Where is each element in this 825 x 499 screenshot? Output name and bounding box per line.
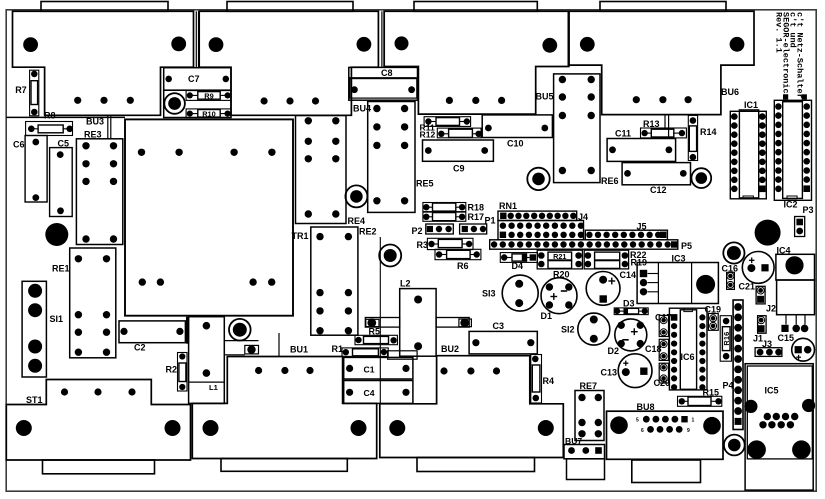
TR1 primary pads	[138, 149, 276, 156]
BU4 mounting pad left	[209, 37, 224, 52]
svg-text:1: 1	[692, 418, 695, 424]
connector BU7	[564, 445, 605, 480]
capacitor C19	[708, 314, 718, 331]
svg-text:R5: R5	[369, 326, 381, 336]
resistors R21 R20 group	[537, 250, 582, 269]
capacitor C15 pads	[781, 325, 808, 333]
mounting ring near L1	[229, 319, 251, 341]
BU1 tab	[221, 459, 347, 472]
inductor L2	[365, 289, 471, 357]
BU1 mounting pad left	[203, 420, 219, 436]
connector IC5 block	[744, 364, 815, 490]
svg-text:J2: J2	[766, 303, 776, 313]
svg-text:C6: C6	[13, 140, 25, 150]
voltage regulator IC3	[637, 263, 718, 304]
BU5 pin pads	[446, 97, 505, 104]
fuse SI3	[502, 275, 538, 311]
transformer TR1	[125, 119, 293, 315]
BU4 pin pads	[261, 97, 320, 104]
capacitor C12	[622, 163, 690, 185]
jumper J3	[755, 348, 782, 357]
svg-text:RE7: RE7	[580, 381, 598, 391]
capacitor C13	[618, 354, 652, 388]
capacitor C10	[482, 115, 552, 138]
connector BU4 tab	[227, 2, 353, 12]
svg-text:RE3: RE3	[84, 130, 102, 140]
wire bridge right of R1	[388, 351, 418, 359]
svg-text:C18: C18	[645, 344, 662, 354]
capacitor C20	[659, 363, 668, 383]
svg-text:SI1: SI1	[50, 314, 64, 324]
svg-text:R12: R12	[420, 129, 436, 139]
resistor network RN1	[498, 211, 577, 220]
resistor R8	[26, 122, 73, 136]
svg-text:TR1: TR1	[292, 231, 309, 241]
capacitor C9	[423, 140, 494, 161]
svg-text:R13: R13	[643, 119, 660, 129]
resistor R6	[435, 249, 481, 259]
inductor L1	[189, 317, 225, 404]
zone boundary line left	[6, 116, 125, 118]
resistor R16	[720, 316, 731, 362]
mounting ring left of C21	[723, 242, 744, 263]
relay RE2	[311, 227, 358, 335]
capacitor C6	[25, 136, 47, 203]
connector BU5 tab	[414, 2, 537, 12]
svg-text:L1: L1	[209, 383, 219, 392]
svg-text:C11: C11	[615, 129, 631, 139]
svg-text:R18: R18	[468, 202, 485, 212]
capacitor C4	[344, 381, 413, 404]
svg-text:RE4: RE4	[348, 216, 366, 226]
resistors R22 R19 group	[584, 250, 628, 269]
connector BU3 block outline	[13, 11, 194, 115]
svg-text:IC3: IC3	[672, 253, 686, 263]
connector BU6 block outline	[569, 11, 754, 114]
relay RE1	[70, 248, 116, 358]
IC socket IC1	[730, 110, 766, 199]
wire stub BU6 to C11/R13	[665, 115, 669, 139]
capacitor C7	[164, 68, 231, 91]
fuse holder SI1	[22, 281, 46, 377]
svg-text:R21: R21	[553, 252, 566, 261]
svg-text:R10: R10	[202, 109, 216, 118]
svg-text:BU2: BU2	[441, 344, 459, 354]
mounting ring near P4 bottom	[724, 435, 745, 456]
resistor R14	[688, 115, 697, 160]
ST1 mounting pad left	[16, 420, 32, 436]
BU3 pin pads	[74, 97, 134, 104]
diode D3	[614, 308, 648, 315]
bridge rectifier D2	[615, 319, 647, 351]
capacitor C22 unlabeled	[792, 338, 815, 361]
svg-text:IC2: IC2	[784, 200, 798, 210]
BU2 mounting pad left	[389, 420, 405, 436]
pin header J5	[585, 230, 667, 240]
relay RE4	[296, 116, 347, 224]
pin header P5	[490, 240, 678, 249]
svg-text:IC6: IC6	[681, 352, 695, 362]
svg-text:C14: C14	[620, 270, 637, 280]
IC socket IC6	[669, 308, 707, 390]
svg-text:BU1: BU1	[290, 345, 308, 355]
svg-text:IC5: IC5	[765, 386, 779, 396]
svg-text:R17: R17	[468, 212, 485, 222]
svg-text:R1: R1	[332, 344, 344, 354]
svg-text:C19: C19	[705, 305, 722, 315]
svg-text:RE6: RE6	[601, 176, 619, 186]
BU6 mounting pad left	[580, 37, 595, 52]
svg-text:5: 5	[636, 418, 639, 424]
jumper P1	[460, 224, 487, 234]
svg-text:J3: J3	[762, 339, 772, 349]
TR1 secondary pads	[139, 278, 276, 285]
capacitor C14	[586, 272, 620, 306]
connector BU6 tab	[600, 2, 726, 12]
svg-text:C21: C21	[739, 281, 756, 291]
BU4 mounting pad right	[357, 37, 372, 52]
svg-text:C4: C4	[364, 388, 375, 398]
jumper J2	[756, 286, 765, 304]
jumper J1	[758, 316, 767, 334]
svg-text:BU5: BU5	[536, 92, 554, 102]
BU2 tab	[417, 458, 535, 472]
svg-text:R7: R7	[15, 85, 27, 95]
BU5 mounting pad right	[542, 38, 557, 53]
svg-text:R8: R8	[44, 111, 56, 121]
connector BU3 tab	[41, 2, 168, 12]
zone line between BU1 and BU2	[379, 237, 381, 403]
svg-text:P3: P3	[803, 205, 814, 215]
svg-text:C8: C8	[381, 68, 393, 78]
svg-text:Rev. 1.1: Rev. 1.1	[774, 12, 784, 53]
relay RE6	[554, 74, 600, 183]
connector BU2 block outline	[380, 356, 564, 458]
resistor R7	[30, 70, 39, 116]
regulator IC4	[776, 254, 815, 324]
mounting ring near C12	[691, 168, 711, 188]
svg-text:BU8: BU8	[637, 402, 655, 412]
resistor R18	[423, 203, 466, 212]
mounting ring near RE2	[379, 245, 401, 267]
pin header P4	[733, 300, 743, 430]
resistor R3	[427, 238, 473, 249]
jumper P2	[426, 224, 454, 234]
svg-text:D3: D3	[623, 298, 635, 308]
capacitor C11	[607, 139, 676, 162]
resistor R17	[423, 212, 466, 221]
capacitor C2	[119, 321, 185, 343]
connector ST1 block outline	[6, 380, 190, 461]
ST1 mounting pad right	[165, 420, 181, 436]
svg-text:C5: C5	[58, 139, 70, 149]
resistor R2	[178, 353, 188, 392]
mounting hole below C5	[45, 223, 68, 246]
connector BU5 block outline	[384, 11, 569, 114]
capacitor C5	[50, 148, 73, 217]
capacitor C21	[742, 252, 774, 284]
connector BU4 block outline	[199, 11, 378, 115]
capacitor C18	[659, 339, 668, 360]
capacitor C8	[349, 67, 418, 100]
resistor R10	[186, 109, 231, 119]
svg-text:D1: D1	[541, 311, 553, 321]
bridge rectifier D1	[541, 278, 577, 314]
svg-text:BU6: BU6	[721, 87, 739, 97]
relay RE3	[76, 139, 122, 245]
BU5 mounting pad left	[395, 36, 409, 50]
capacitor C16	[727, 272, 735, 289]
svg-text:IC1: IC1	[744, 100, 758, 110]
resistor R9	[186, 91, 231, 101]
svg-text:C2: C2	[134, 343, 146, 353]
diode D4	[500, 253, 537, 263]
capacitor C3	[469, 331, 537, 354]
svg-text:R16: R16	[722, 332, 731, 346]
R9 R10 group box	[164, 90, 231, 117]
mounting ring near C7	[164, 93, 185, 114]
connector BU8 (DB9)	[607, 411, 724, 459]
svg-text:D2: D2	[608, 346, 620, 356]
svg-text:R9: R9	[204, 91, 213, 100]
svg-text:R3: R3	[417, 240, 429, 250]
svg-text:RE2: RE2	[359, 226, 377, 236]
svg-text:R4: R4	[543, 376, 555, 386]
svg-text:BU7: BU7	[565, 436, 582, 446]
BU1 mounting pad right	[351, 420, 367, 436]
wire stub with pad near BU1	[224, 333, 279, 357]
BU3 mounting pad right	[171, 37, 186, 52]
shared edge BU5 BU6	[568, 11, 570, 66]
fuse SI2	[578, 313, 610, 345]
svg-text:C15: C15	[778, 333, 795, 343]
BU8 tab	[632, 460, 701, 483]
svg-text:R15: R15	[703, 388, 720, 398]
svg-text:C1: C1	[364, 364, 375, 374]
svg-text:9: 9	[687, 428, 690, 434]
mounting hole near IC4	[755, 220, 781, 246]
svg-text:R6: R6	[457, 261, 469, 271]
svg-text:P4: P4	[723, 381, 734, 391]
resistor R13	[641, 128, 687, 138]
svg-text:C10: C10	[507, 138, 524, 148]
wire bar right of C2	[186, 317, 189, 344]
wire stub BU3 to RE3	[108, 115, 111, 139]
IC socket IC2	[774, 94, 811, 200]
svg-text:P2: P2	[412, 226, 423, 236]
resistor R11	[424, 117, 471, 127]
svg-text:RE5: RE5	[416, 178, 434, 188]
svg-text:C12: C12	[650, 185, 667, 195]
gap line between BU3 and BU4	[196, 11, 198, 67]
resistor R12	[437, 128, 482, 138]
svg-text:RN1: RN1	[499, 201, 517, 211]
svg-text:SI3: SI3	[482, 288, 496, 298]
svg-text:6: 6	[641, 428, 644, 434]
svg-text:C7: C7	[188, 74, 200, 84]
gap line between BU4 and BU5	[382, 11, 384, 67]
resistor R4	[531, 355, 542, 404]
relay RE7	[575, 391, 604, 441]
jumper P3	[795, 217, 805, 237]
mounting ring near RE4	[345, 185, 367, 207]
svg-text:P5: P5	[681, 241, 692, 251]
svg-text:RE1: RE1	[52, 263, 70, 273]
svg-text:ST1: ST1	[26, 395, 43, 405]
capacitor C1	[344, 357, 413, 379]
BU6 pin pads	[633, 96, 692, 103]
svg-text:C16: C16	[722, 263, 739, 273]
connector BU1 block outline	[192, 357, 376, 459]
BU1 pin pads	[255, 367, 314, 374]
svg-text:C20: C20	[654, 378, 671, 388]
svg-text:SI2: SI2	[561, 325, 575, 335]
svg-text:R2: R2	[166, 364, 178, 374]
ST1 tab	[43, 460, 155, 474]
BU6 mounting pad right	[730, 37, 745, 52]
resistor R15	[678, 396, 722, 406]
svg-text:IC4: IC4	[777, 246, 791, 256]
svg-text:C13: C13	[601, 368, 618, 378]
svg-text:C9: C9	[453, 163, 465, 173]
BU3 mounting pad left	[23, 37, 38, 52]
resistor R5	[355, 335, 397, 344]
mounting ring near RE6	[527, 168, 549, 190]
resistor R1	[342, 348, 388, 357]
ST1 pin pads	[61, 388, 136, 395]
BU2 pin pads	[440, 367, 500, 374]
svg-text:D4: D4	[512, 261, 524, 271]
svg-text:L2: L2	[400, 278, 411, 288]
relay RE5	[368, 102, 415, 213]
svg-text:C3: C3	[493, 321, 505, 331]
BU2 mounting pad right	[538, 420, 554, 436]
capacitor C17	[659, 315, 668, 336]
svg-text:R14: R14	[700, 127, 717, 137]
pin header J4	[498, 221, 584, 240]
